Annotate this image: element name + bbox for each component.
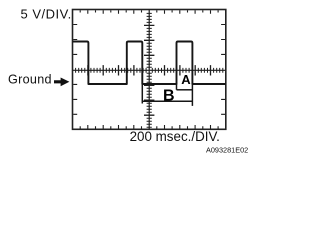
horizontal center axis line — [73, 69, 226, 71]
vertical axis minor ticks — [147, 13, 152, 127]
pulse-3 falling-edge extension (right end of A and B spans) — [191, 84, 193, 106]
top border half-division ticks — [80, 10, 218, 14]
ground level arrow — [54, 78, 69, 87]
A span bottom line — [177, 89, 193, 91]
left border division ticks — [73, 25, 77, 115]
svg-text:200 msec./DIV.: 200 msec./DIV. — [130, 129, 220, 144]
svg-text:Ground: Ground — [8, 72, 52, 86]
bottom border half-division ticks — [80, 125, 218, 129]
oscilloscope screen border — [73, 10, 226, 130]
horizontal axis minor ticks — [76, 68, 223, 73]
pulse-2 falling-edge extension (left end of B span) — [141, 84, 143, 104]
vertical center axis line — [148, 10, 150, 130]
B span dimension line — [142, 100, 192, 102]
horizontal axis major division ticks — [88, 65, 211, 75]
pulse-3 rising-edge extension (left side of A box) — [176, 84, 178, 90]
svg-text:A: A — [181, 72, 191, 87]
vertical axis major division ticks — [144, 25, 154, 115]
right border division ticks — [221, 25, 225, 115]
svg-text:5 V/DIV.: 5 V/DIV. — [21, 6, 72, 21]
svg-text:B: B — [163, 88, 175, 105]
svg-text:A093281E02: A093281E02 — [206, 145, 248, 154]
square-wave signal trace — [73, 42, 226, 85]
